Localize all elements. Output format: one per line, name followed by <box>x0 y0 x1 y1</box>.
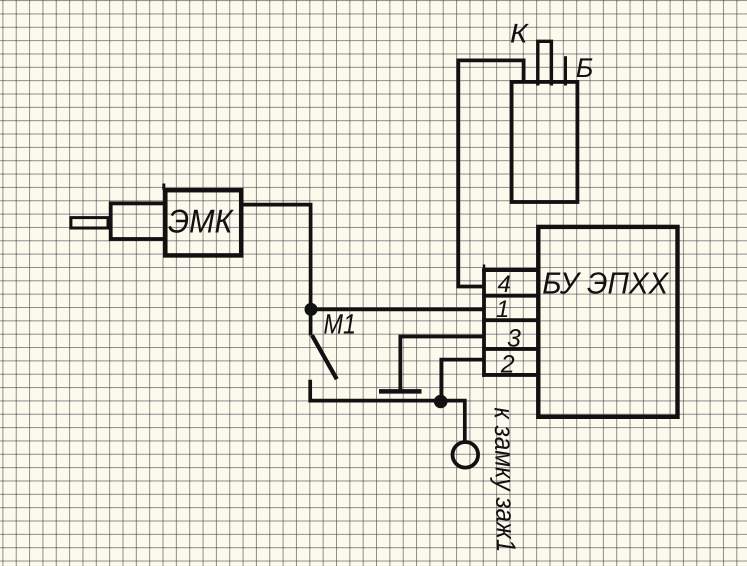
svg-text:ЭМК: ЭМК <box>168 202 234 239</box>
svg-text:Б: Б <box>576 53 594 83</box>
svg-text:М1: М1 <box>324 309 357 340</box>
svg-text:1: 1 <box>496 296 509 323</box>
svg-text:2: 2 <box>500 351 515 379</box>
svg-text:к замку заж1: к замку заж1 <box>489 407 522 553</box>
svg-text:К: К <box>510 19 530 49</box>
svg-text:4: 4 <box>498 271 511 298</box>
svg-text:БУ ЭПХХ: БУ ЭПХХ <box>542 266 670 300</box>
svg-text:3: 3 <box>507 325 521 353</box>
